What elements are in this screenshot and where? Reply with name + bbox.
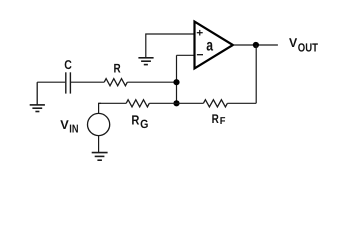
svg-text:F: F <box>220 116 226 127</box>
ground G2 (op-amp + input) <box>138 58 153 65</box>
wire: VIN to RG <box>99 102 127 104</box>
resistor R zigzag <box>104 79 127 86</box>
wire: RG to node B <box>149 102 176 104</box>
svg-text:OUT: OUT <box>298 40 319 54</box>
op-amp plus input marker <box>197 30 203 36</box>
wire: output node down to RF <box>255 45 257 103</box>
wire: R to node A <box>127 81 176 83</box>
label VIN <box>60 117 78 136</box>
svg-text:C: C <box>64 57 72 72</box>
op-amp minus input marker <box>197 54 203 56</box>
op-amp U1 triangle <box>195 22 233 69</box>
wire: RF to output line <box>227 102 256 104</box>
wire: node to inverting input <box>177 54 195 56</box>
node B junction dot <box>173 100 179 106</box>
resistor RF zigzag <box>203 100 227 107</box>
label RG <box>131 112 148 131</box>
wire: non-inverting input <box>146 34 195 58</box>
wire: summing node vertical (node A to node B and to inverting input) <box>176 55 178 103</box>
svg-text:G: G <box>140 117 148 131</box>
svg-text:R: R <box>212 112 219 126</box>
label VOUT <box>289 35 319 55</box>
node C junction dot (output node) <box>253 42 259 48</box>
node A junction dot <box>173 79 179 85</box>
svg-text:a: a <box>206 37 213 54</box>
svg-text:V: V <box>289 35 298 50</box>
wire: VIN bottom lead <box>98 136 100 153</box>
wire: op-amp output <box>233 44 278 46</box>
wire: C to resistor R <box>71 81 104 83</box>
wire: node B to RF <box>177 102 204 104</box>
source VIN circle <box>88 113 110 135</box>
svg-text:R: R <box>131 112 139 127</box>
ground G1 (left, input ground) <box>30 82 45 111</box>
svg-text:R: R <box>114 62 121 76</box>
resistor RG zigzag <box>126 100 149 107</box>
wire: VIN top lead to RG line <box>99 103 101 113</box>
svg-text:IN: IN <box>69 123 78 135</box>
capacitor C1 plates <box>66 72 71 93</box>
wire: left ground to capacitor C <box>37 81 65 83</box>
ground G3 (VIN ground) <box>92 153 108 161</box>
svg-text:V: V <box>60 117 69 132</box>
label RF <box>212 112 226 127</box>
